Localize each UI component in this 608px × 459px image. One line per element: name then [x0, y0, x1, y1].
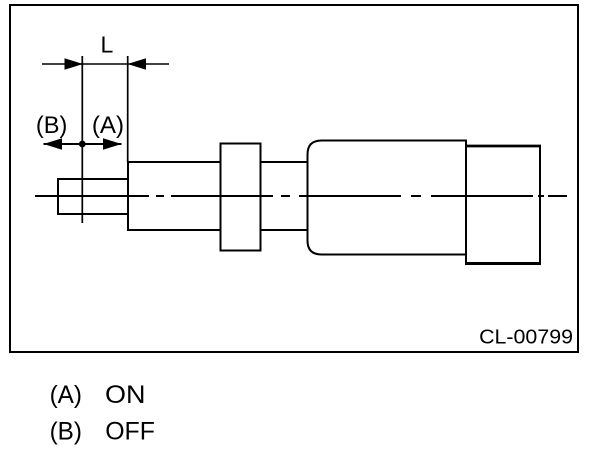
hex nut flange: [221, 144, 261, 251]
dimension arrowhead left: [65, 58, 84, 69]
junction dot: [79, 141, 86, 148]
svg-text:(A): (A): [92, 112, 124, 139]
extension line at tip edge: [127, 56, 129, 162]
svg-text:(B): (B): [36, 112, 67, 139]
switch shaft: [128, 162, 308, 230]
svg-text:(B): (B): [50, 417, 82, 445]
centerline: [35, 195, 567, 197]
svg-text:(A): (A): [50, 381, 82, 409]
connector top edge: [465, 145, 541, 148]
plunger tip: [58, 179, 128, 214]
switch body: [308, 141, 467, 255]
connector housing: [466, 146, 540, 264]
svg-text:L: L: [101, 32, 114, 58]
connector bottom edge: [465, 262, 541, 265]
dimension line L: [42, 63, 169, 65]
dimension arrowhead right: [128, 58, 147, 69]
direction arrowhead A (right): [103, 138, 122, 149]
extension line at stroke position: [81, 56, 83, 223]
direction arrow line: [44, 143, 122, 145]
svg-text:CL-00799: CL-00799: [479, 327, 573, 349]
svg-text:OFF: OFF: [105, 417, 155, 445]
direction arrowhead B (left): [44, 138, 63, 149]
svg-text:ON: ON: [105, 381, 146, 409]
figure frame border: [10, 5, 578, 352]
